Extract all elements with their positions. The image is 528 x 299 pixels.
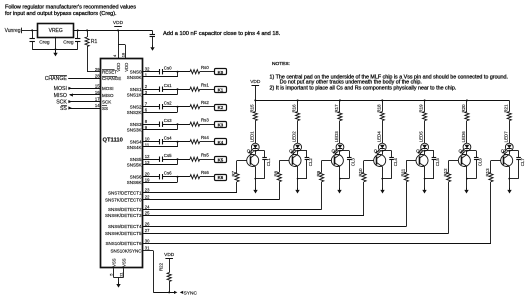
svg-text:Rs5: Rs5 <box>201 153 209 158</box>
svg-text:VDD: VDD <box>250 79 261 85</box>
svg-text:R8: R8 <box>274 170 279 176</box>
svg-text:Cs2: Cs2 <box>164 100 172 105</box>
svg-text:26: 26 <box>145 222 150 227</box>
svg-text:CL5: CL5 <box>435 158 440 167</box>
svg-text:QT1110: QT1110 <box>103 138 123 144</box>
svg-text:SNS6: SNS6 <box>130 174 142 179</box>
svg-text:Q7: Q7 <box>501 149 507 154</box>
svg-text:12: 12 <box>145 154 150 159</box>
svg-text:SNS0: SNS0 <box>130 69 142 74</box>
svg-text:R19: R19 <box>419 104 424 113</box>
svg-text:SNS5K: SNS5K <box>127 162 142 167</box>
svg-text:R22: R22 <box>159 262 164 271</box>
svg-text:25: 25 <box>145 210 150 215</box>
svg-text:SCK: SCK <box>102 99 111 104</box>
svg-text:Rs3: Rs3 <box>201 118 209 123</box>
svg-text:R16: R16 <box>292 104 297 113</box>
svg-text:SNS10/DETECT6: SNS10/DETECT6 <box>105 241 142 246</box>
svg-text:31: 31 <box>145 246 150 251</box>
svg-text:K6: K6 <box>218 175 224 180</box>
svg-text:SNS8/DETECT2: SNS8/DETECT2 <box>108 207 142 212</box>
svg-text:SNS1K: SNS1K <box>127 92 142 97</box>
svg-text:MISO: MISO <box>54 93 67 99</box>
svg-text:SNS9/DETECT4: SNS9/DETECT4 <box>108 224 142 229</box>
svg-text:Q3: Q3 <box>331 149 337 154</box>
svg-text:LED1: LED1 <box>249 131 254 143</box>
svg-text:Vunreg: Vunreg <box>5 28 21 34</box>
svg-text:32: 32 <box>145 67 150 72</box>
svg-text:Creg: Creg <box>63 40 74 46</box>
svg-text:K1: K1 <box>218 87 224 92</box>
svg-text:SNS7/DETECT1: SNS7/DETECT1 <box>108 190 142 195</box>
svg-text:Rs0: Rs0 <box>201 65 209 70</box>
svg-text:2) It is important to place al: 2) It is important to place all Cs and R… <box>270 85 457 91</box>
svg-text:VREG: VREG <box>49 28 63 34</box>
svg-text:18: 18 <box>121 52 126 57</box>
svg-text:Rs4: Rs4 <box>201 135 209 140</box>
svg-text:20: 20 <box>145 172 150 177</box>
svg-text:Cs5: Cs5 <box>164 153 172 158</box>
svg-text:SS: SS <box>102 106 108 111</box>
svg-text:MOSI: MOSI <box>102 86 114 91</box>
svg-text:NOTES:: NOTES: <box>272 61 290 67</box>
svg-text:K0: K0 <box>218 70 224 75</box>
svg-text:SNS5: SNS5 <box>130 157 142 162</box>
svg-text:Rs6: Rs6 <box>201 170 209 175</box>
svg-text:23: 23 <box>145 188 150 193</box>
svg-text:Cs3: Cs3 <box>164 118 172 123</box>
svg-text:SNS6K: SNS6K <box>127 180 142 185</box>
svg-text:SNS10K/SYNC: SNS10K/SYNC <box>110 248 142 253</box>
svg-text:CL6: CL6 <box>478 158 483 167</box>
svg-text:CL2: CL2 <box>308 158 313 167</box>
svg-text:Do not put any other tracks un: Do not put any other tracks underneath t… <box>280 79 422 85</box>
svg-text:27: 27 <box>145 228 150 233</box>
svg-text:R13: R13 <box>485 168 490 177</box>
svg-text:SCK: SCK <box>56 100 67 106</box>
svg-text:Q2: Q2 <box>289 149 295 154</box>
svg-text:Q4: Q4 <box>374 149 380 154</box>
svg-text:RESET: RESET <box>102 70 117 75</box>
svg-text:Cs1: Cs1 <box>164 83 172 88</box>
svg-text:K2: K2 <box>218 105 224 110</box>
svg-text:SNS0K: SNS0K <box>127 75 142 80</box>
svg-text:SS: SS <box>60 106 67 112</box>
svg-text:SNS4: SNS4 <box>130 139 142 144</box>
svg-text:R1: R1 <box>91 39 98 45</box>
svg-text:CHANGE: CHANGE <box>45 76 68 82</box>
svg-text:R20: R20 <box>461 104 466 113</box>
svg-text:Cs6: Cs6 <box>164 170 172 175</box>
svg-text:SNS3: SNS3 <box>130 122 142 127</box>
svg-text:MISO: MISO <box>102 93 114 98</box>
svg-text:CHANGE: CHANGE <box>102 76 121 81</box>
svg-text:CL4: CL4 <box>393 158 398 167</box>
svg-text:R18: R18 <box>376 104 381 113</box>
svg-text:MOSI: MOSI <box>54 86 67 92</box>
svg-text:LED6: LED6 <box>461 131 466 143</box>
svg-text:17: 17 <box>95 97 100 102</box>
svg-text:K5: K5 <box>218 157 224 162</box>
svg-text:R12: R12 <box>443 168 448 177</box>
svg-text:Q6: Q6 <box>458 149 464 154</box>
svg-text:R7: R7 <box>231 170 236 176</box>
svg-text:Creg: Creg <box>39 40 50 46</box>
svg-text:CL7: CL7 <box>520 158 525 167</box>
svg-text:Cs4: Cs4 <box>164 135 172 140</box>
svg-text:SNS4K: SNS4K <box>127 145 142 150</box>
svg-text:VSS: VSS <box>112 258 117 267</box>
svg-text:R10: R10 <box>358 168 363 177</box>
svg-text:R21: R21 <box>503 104 508 113</box>
svg-text:SNS2: SNS2 <box>130 104 142 109</box>
svg-text:K3: K3 <box>218 122 224 127</box>
svg-text:21: 21 <box>119 272 124 277</box>
svg-text:R15: R15 <box>249 104 254 113</box>
svg-text:R9: R9 <box>316 170 321 176</box>
svg-text:28: 28 <box>95 73 100 78</box>
svg-text:LED2: LED2 <box>292 131 297 143</box>
svg-text:LED7: LED7 <box>503 131 508 143</box>
svg-text:VDD: VDD <box>164 252 175 258</box>
svg-text:SNS9K/DETECT5: SNS9K/DETECT5 <box>105 231 142 236</box>
svg-text:Follow regulator manufacturer': Follow regulator manufacturer's recommen… <box>5 4 136 10</box>
svg-text:LED5: LED5 <box>419 131 424 143</box>
svg-text:Q1: Q1 <box>247 149 253 154</box>
svg-text:SYNC: SYNC <box>184 290 198 296</box>
svg-text:15: 15 <box>95 83 100 88</box>
svg-text:SNS7K/DETECT0: SNS7K/DETECT0 <box>105 197 142 202</box>
svg-text:for input and output bypass ca: for input and output bypass capacitors (… <box>5 11 117 17</box>
svg-text:VDD: VDD <box>124 63 129 72</box>
svg-text:30: 30 <box>145 238 150 243</box>
svg-text:LED3: LED3 <box>334 131 339 143</box>
svg-text:22: 22 <box>145 195 150 200</box>
svg-text:LED4: LED4 <box>376 131 381 143</box>
svg-text:SNS2K: SNS2K <box>127 110 142 115</box>
svg-text:K4: K4 <box>218 140 224 145</box>
svg-text:R11: R11 <box>401 168 406 176</box>
svg-text:29: 29 <box>95 67 100 72</box>
svg-text:R17: R17 <box>334 104 339 113</box>
svg-text:Rs2: Rs2 <box>201 100 209 105</box>
svg-text:CL3: CL3 <box>351 158 356 167</box>
svg-text:19: 19 <box>145 177 150 182</box>
svg-text:CL1: CL1 <box>266 158 271 167</box>
svg-text:SNS3K: SNS3K <box>127 127 142 132</box>
svg-text:Q5: Q5 <box>416 149 422 154</box>
svg-text:10: 10 <box>145 137 150 142</box>
svg-text:24: 24 <box>145 204 150 209</box>
svg-text:VSS: VSS <box>122 258 127 267</box>
svg-text:Add a 100 nF capacitor close t: Add a 100 nF capacitor close to pins 4 a… <box>163 31 281 37</box>
svg-text:VDD: VDD <box>113 20 124 26</box>
svg-text:Cs0: Cs0 <box>164 65 172 70</box>
svg-text:Rs1: Rs1 <box>201 83 209 88</box>
svg-text:14: 14 <box>95 103 100 108</box>
svg-text:SNS1: SNS1 <box>130 87 142 92</box>
svg-text:SNS8K/DETECT3: SNS8K/DETECT3 <box>105 213 142 218</box>
